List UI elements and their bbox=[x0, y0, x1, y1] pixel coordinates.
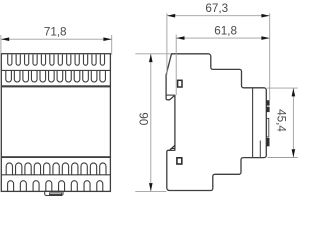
lower terminal area thick band bbox=[1, 156, 110, 158]
dimension 90: top arrowhead bbox=[149, 54, 153, 62]
arch slot row 3 bbox=[6, 163, 106, 175]
dimension 67,3: left arrowhead bbox=[167, 14, 175, 18]
side view: lower clip window bbox=[177, 158, 182, 164]
svg-text:71,8: 71,8 bbox=[44, 26, 67, 39]
dimension 61,8: dimension line bbox=[176, 37, 269, 39]
dimension 71,8: right arrowhead bbox=[103, 37, 111, 41]
vent slot row 2 (hanging U slots) bbox=[6, 71, 106, 82]
side view: rail spring clip hook bbox=[170, 145, 175, 150]
dimension 71,8: extension line left bbox=[0, 35, 2, 53]
dimension 45,4: extension line top bbox=[267, 87, 298, 89]
line under arch row 3 bbox=[1, 174, 110, 176]
dimension 67,3: extension line left bbox=[166, 13, 168, 75]
dimension 90: extension line top bbox=[135, 53, 170, 55]
DIN clip tab inner bar bbox=[50, 193, 62, 195]
dimension 67,3 / 61,8: shared extension line right bbox=[269, 13, 271, 100]
arch slot row 4 bbox=[8, 181, 103, 192]
side view: terminal screw bump second bbox=[266, 107, 269, 112]
vent slot row 1 (hanging U slots) bbox=[8, 54, 105, 65]
DIN clip tab below front view bbox=[45, 191, 63, 195]
dimension 67,3: dimension line bbox=[167, 15, 270, 17]
dimension 45,4: top arrowhead bbox=[292, 88, 296, 96]
side view: terminal cover thin bar bbox=[267, 118, 269, 137]
svg-text:90: 90 bbox=[137, 112, 150, 126]
svg-text:61,8: 61,8 bbox=[214, 25, 237, 38]
dimension 90: dimension line bbox=[150, 54, 152, 191]
dimension 61,8: extension line left bbox=[175, 35, 177, 96]
dimension 61,8: left arrowhead bbox=[176, 36, 184, 40]
dimension 61,8: right arrowhead bbox=[261, 36, 269, 40]
dimension 71,8: extension line right bbox=[111, 35, 113, 55]
side view: terminal block interior line bbox=[259, 141, 261, 158]
dimension 90: bottom arrowhead bbox=[149, 183, 153, 191]
side view: front panel interior line bbox=[252, 88, 254, 157]
dimension 71,8: dimension line bbox=[1, 38, 112, 40]
svg-text:67,3: 67,3 bbox=[205, 2, 228, 15]
dimension 45,4: bottom arrowhead bbox=[292, 149, 296, 157]
dimension 45,4: extension line bottom bbox=[268, 157, 298, 159]
side view: foot top interior line bbox=[166, 94, 174, 96]
dimension 71,8: left arrowhead bbox=[1, 37, 9, 41]
side view: terminal screw bump lower bbox=[266, 138, 269, 146]
upper terminal area thick band bbox=[1, 85, 110, 87]
svg-text:45,4: 45,4 bbox=[275, 109, 288, 132]
dimension 45,4: dimension line bbox=[292, 88, 294, 157]
dimension 90: extension line bottom bbox=[135, 190, 166, 192]
front view bottom edge over clip tab bbox=[44, 190, 64, 192]
dimension 67,3: right arrowhead bbox=[261, 14, 269, 18]
front view: module body outline bbox=[1, 54, 110, 192]
separator line between slot rows bbox=[1, 69, 110, 71]
side view: body outline bbox=[166, 54, 266, 191]
side view: terminal screw bump upper bbox=[266, 100, 269, 105]
side view: upper clip window bbox=[178, 80, 182, 87]
